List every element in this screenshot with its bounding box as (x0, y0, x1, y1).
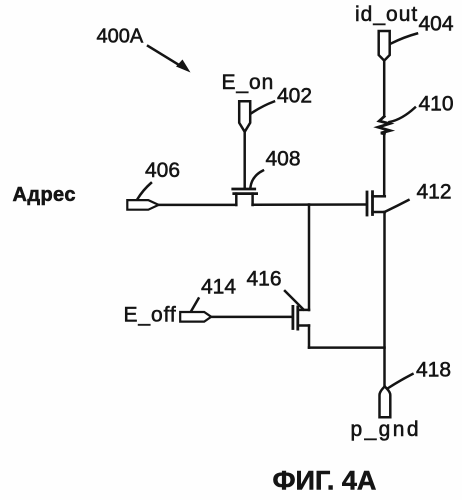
terminal Адрес (127, 200, 158, 210)
svg-text:E_off: E_off (124, 304, 177, 327)
terminal E_off (180, 312, 211, 322)
wire E_off to gate of 416 (212, 316, 293, 319)
terminal E_on (239, 101, 250, 132)
label 404 (419, 13, 454, 36)
label 412 (417, 181, 452, 204)
terminal id_out (379, 31, 390, 61)
transistor Q 412 (367, 192, 385, 215)
label 408 (266, 148, 301, 171)
resistor R 410 (378, 117, 390, 134)
svg-text:Адрес: Адрес (13, 184, 76, 206)
label 414 (201, 276, 236, 299)
svg-text:414: 414 (201, 276, 236, 299)
leader line 416 (285, 291, 304, 310)
node junction at address line (308, 205, 311, 311)
label E_off (124, 304, 177, 327)
svg-text:p_gnd: p_gnd (351, 418, 421, 441)
caption ФИГ. 4А (273, 466, 377, 496)
wire 416 source down (308, 326, 311, 348)
leader line 418 (388, 374, 413, 389)
svg-text:408: 408 (266, 148, 301, 171)
transistor Q 408 (233, 189, 257, 205)
label E_on (222, 71, 275, 94)
label p_gnd (351, 418, 421, 441)
arrow from 400A (148, 46, 191, 73)
wire 408 right leg to gate of 412 (253, 203, 366, 206)
label 400A (97, 26, 144, 48)
leader line 414 (192, 299, 199, 311)
wire right rail 412 source to p_gnd (383, 212, 386, 386)
label 406 (145, 159, 180, 182)
transistor Q 416 (293, 306, 309, 329)
leader line 406 (138, 183, 152, 199)
wire Адрес to 408 left leg (159, 204, 236, 207)
svg-text:412: 412 (417, 181, 452, 204)
svg-text:400A: 400A (97, 26, 144, 48)
label 410 (419, 93, 454, 116)
leader line 410 (390, 108, 416, 123)
label Адрес (13, 184, 76, 206)
leader line 408 (251, 171, 264, 188)
wire id_out to resistor (383, 61, 386, 116)
label 402 (277, 85, 312, 108)
leader line 412 (386, 200, 409, 212)
wire resistor to transistor 412 drain (383, 134, 386, 196)
svg-text:418: 418 (416, 359, 451, 382)
svg-text:E_on: E_on (222, 71, 275, 94)
label 416 (247, 268, 282, 291)
svg-text:416: 416 (247, 268, 282, 291)
svg-text:ФИГ. 4А: ФИГ. 4А (273, 466, 377, 496)
svg-text:402: 402 (277, 85, 312, 108)
label 418 (416, 359, 451, 382)
terminal p_gnd (380, 386, 391, 417)
svg-text:410: 410 (419, 93, 454, 116)
leader line 404 (391, 34, 417, 44)
svg-text:404: 404 (419, 13, 454, 36)
label id_out (355, 3, 418, 26)
svg-text:id_out: id_out (355, 3, 418, 26)
svg-text:406: 406 (145, 159, 180, 182)
wire E_on to gate of 408 (243, 132, 246, 188)
wire bottom horizontal (309, 346, 385, 349)
leader line 402 (251, 102, 274, 114)
